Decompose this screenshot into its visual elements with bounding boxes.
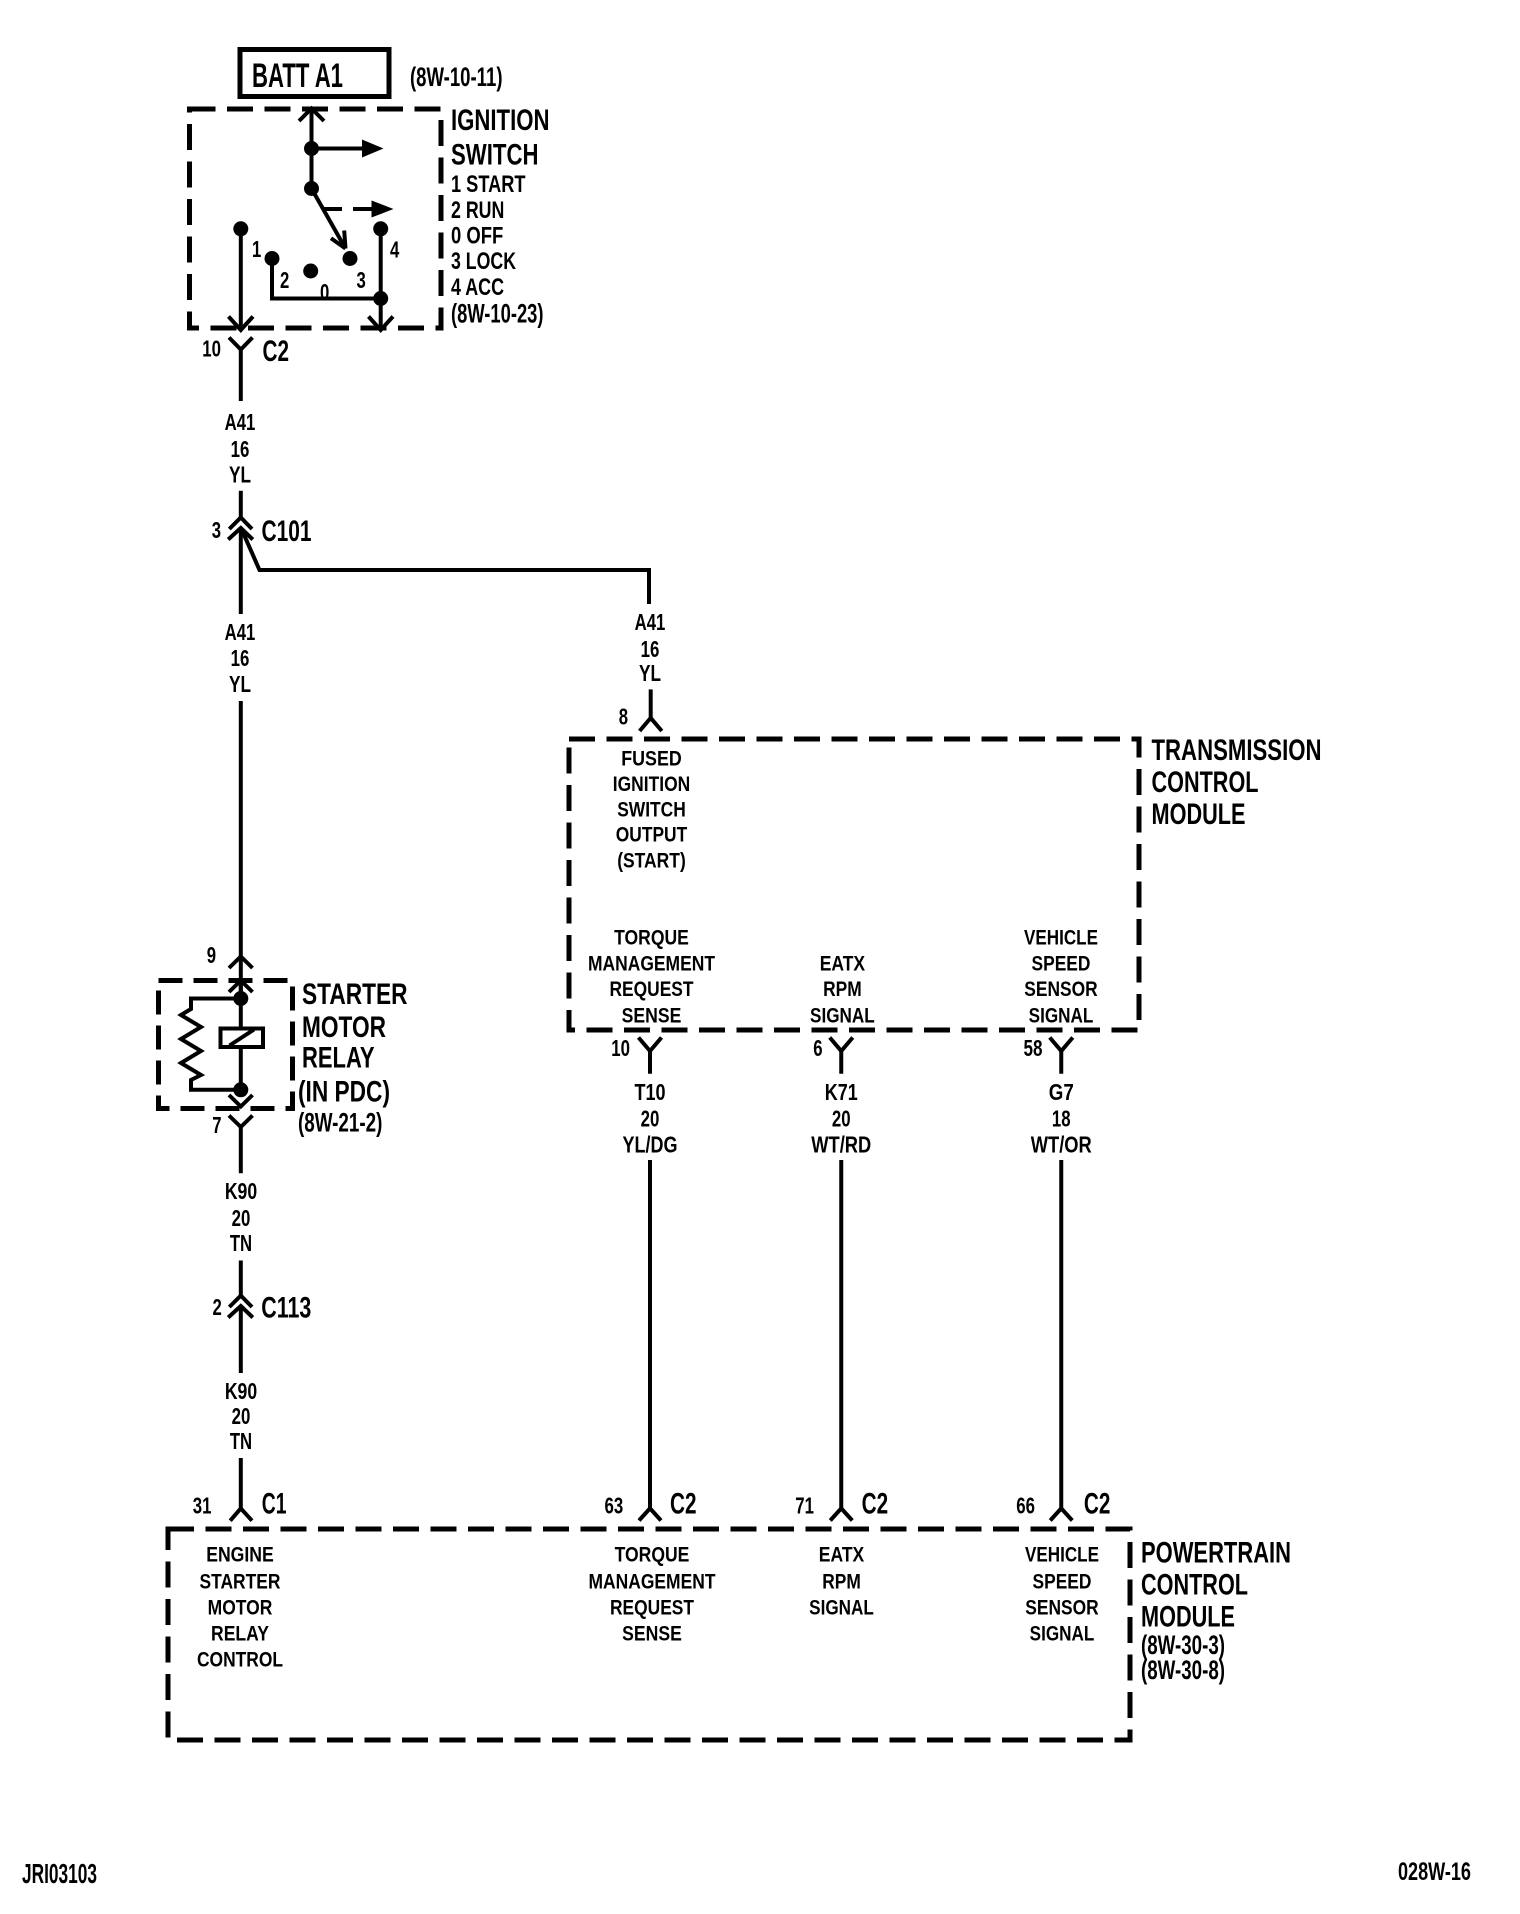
svg-text:CONTROL: CONTROL	[1141, 1569, 1248, 1602]
powertrain control module dashed box	[168, 1529, 1130, 1740]
relay top node dot	[233, 991, 248, 1006]
TCM title	[1152, 734, 1322, 831]
svg-text:YL: YL	[229, 671, 251, 697]
svg-text:SENSOR: SENSOR	[1025, 1596, 1099, 1620]
svg-text:3: 3	[212, 517, 221, 543]
contact 3 dot	[343, 251, 358, 266]
svg-text:31: 31	[193, 1493, 212, 1519]
svg-text:YL: YL	[229, 462, 251, 488]
branch wire from C101 to TCM column	[243, 532, 649, 604]
svg-text:YL/DG: YL/DG	[623, 1131, 678, 1157]
svg-text:YL: YL	[639, 660, 661, 686]
svg-text:TN: TN	[230, 1428, 252, 1454]
switch wiper node dot	[304, 181, 319, 196]
svg-text:7: 7	[212, 1112, 221, 1138]
PCM pin 31 function label	[197, 1543, 283, 1672]
svg-text:RELAY: RELAY	[302, 1041, 375, 1074]
svg-text:A41: A41	[225, 619, 256, 645]
svg-text:A41: A41	[635, 609, 666, 635]
arrow into relay box	[229, 981, 253, 993]
svg-text:C2: C2	[862, 1488, 889, 1521]
svg-text:MOTOR: MOTOR	[208, 1596, 273, 1620]
svg-text:TRANSMISSION: TRANSMISSION	[1152, 734, 1322, 767]
svg-text:BATT A1: BATT A1	[252, 57, 343, 95]
arrow out of relay box	[229, 1095, 253, 1107]
contact 1 dot	[233, 221, 248, 236]
svg-text:2: 2	[213, 1294, 222, 1320]
svg-text:FUSED: FUSED	[621, 747, 682, 771]
TCM pin 8 function label	[613, 747, 690, 873]
PCM EATX RPM label	[809, 1543, 874, 1620]
wire label T10 20 YL/DG	[623, 1079, 678, 1157]
svg-text:SIGNAL: SIGNAL	[1029, 1004, 1094, 1028]
svg-text:SPEED: SPEED	[1032, 952, 1091, 976]
svg-text:C113: C113	[261, 1292, 311, 1325]
svg-text:C1: C1	[262, 1487, 287, 1520]
relay coil box with diagonal	[221, 1029, 264, 1048]
svg-text:SENSOR: SENSOR	[1024, 977, 1098, 1001]
svg-text:0: 0	[320, 279, 329, 305]
TCM pin 58 connector	[1050, 1038, 1073, 1074]
TCM pin 8 connector	[640, 689, 662, 731]
wire contact 4 to connector, down arrow at box edge	[369, 229, 394, 330]
svg-text:16: 16	[641, 636, 660, 662]
svg-text:9: 9	[207, 942, 216, 968]
wire T10 column down to PCM	[639, 1160, 661, 1521]
svg-text:T10: T10	[635, 1079, 666, 1105]
svg-text:SPEED: SPEED	[1033, 1570, 1092, 1594]
wiper blade to contact 3 with arrowhead	[312, 189, 346, 249]
contact 4 dot	[373, 221, 388, 236]
relay title labels	[298, 978, 408, 1138]
svg-text:MODULE: MODULE	[1141, 1601, 1235, 1634]
TCM pin 6 connector	[830, 1038, 853, 1074]
svg-text:3: 3	[357, 267, 366, 293]
contact 0 dot	[303, 264, 318, 279]
svg-text:SIGNAL: SIGNAL	[809, 1596, 874, 1620]
starter motor relay dashed box	[159, 981, 293, 1109]
svg-text:POWERTRAIN: POWERTRAIN	[1141, 1537, 1291, 1570]
svg-text:MANAGEMENT: MANAGEMENT	[588, 952, 715, 976]
svg-text:4: 4	[390, 237, 399, 263]
svg-text:SWITCH: SWITCH	[617, 797, 686, 821]
svg-text:6: 6	[813, 1035, 822, 1061]
svg-text:G7: G7	[1049, 1079, 1074, 1105]
connector C2 pin 10 (ignition switch output)	[229, 338, 253, 402]
TCM vehicle speed label	[1024, 926, 1098, 1028]
svg-text:IGNITION: IGNITION	[451, 104, 550, 137]
svg-text:SWITCH: SWITCH	[451, 138, 539, 171]
wire label A41 16 YL (upper)	[225, 409, 256, 488]
switch common node dot (battery feed)	[304, 141, 319, 156]
svg-text:20: 20	[641, 1106, 660, 1132]
svg-text:1 START: 1 START	[451, 171, 526, 198]
wire from BATT A1 into switch, arrow up	[299, 109, 324, 189]
svg-text:CONTROL: CONTROL	[197, 1648, 283, 1672]
svg-text:71: 71	[795, 1493, 814, 1519]
TCM torque management label	[588, 926, 715, 1028]
wire contact 1 to connector, down arrow at box edge	[229, 229, 254, 330]
TCM EATX RPM label	[810, 952, 875, 1028]
wire label A41 16 YL (right branch)	[635, 609, 666, 686]
svg-text:18: 18	[1052, 1106, 1071, 1132]
relay bottom node dot	[233, 1082, 248, 1097]
svg-text:63: 63	[605, 1493, 624, 1519]
svg-text:(START): (START)	[617, 849, 686, 873]
svg-text:RPM: RPM	[822, 1570, 861, 1594]
svg-text:SIGNAL: SIGNAL	[1030, 1622, 1095, 1646]
svg-text:TORQUE: TORQUE	[614, 926, 689, 950]
svg-text:STARTER: STARTER	[302, 978, 408, 1011]
relay internal wire	[239, 981, 243, 1090]
dashed travel arrow (RUN direction)	[324, 201, 394, 218]
svg-text:(8W-10-11): (8W-10-11)	[410, 62, 503, 92]
junction dot contacts 2/4	[373, 291, 388, 306]
svg-text:K90: K90	[225, 1178, 257, 1204]
svg-text:C2: C2	[263, 335, 290, 368]
svg-text:ENGINE: ENGINE	[206, 1543, 274, 1567]
svg-text:20: 20	[232, 1403, 251, 1429]
svg-text:STARTER: STARTER	[200, 1570, 281, 1594]
wire label K90 20 TN (upper)	[225, 1178, 257, 1256]
svg-text:K71: K71	[825, 1079, 858, 1105]
transmission control module dashed box	[569, 739, 1139, 1030]
svg-text:EATX: EATX	[820, 952, 866, 976]
connector pin 9 at starter relay	[229, 957, 253, 969]
contact 2 dot	[265, 251, 280, 266]
svg-text:SENSE: SENSE	[622, 1622, 682, 1646]
wire label A41 16 YL (lower left)	[225, 619, 256, 697]
connector C113 pin 2 (double chevron)	[228, 1296, 253, 1318]
connector pin 7 below relay	[229, 1116, 253, 1174]
svg-text:10: 10	[202, 336, 221, 362]
svg-text:2: 2	[280, 267, 289, 293]
svg-text:16: 16	[231, 645, 250, 671]
wire below C101	[239, 528, 243, 614]
ignition switch title labels	[451, 104, 550, 328]
wire label G7 18 WT/OR	[1031, 1079, 1092, 1157]
svg-text:VEHICLE: VEHICLE	[1025, 1543, 1099, 1567]
svg-text:MODULE: MODULE	[1152, 798, 1246, 831]
wire to PCM pin 31	[230, 1458, 252, 1521]
svg-text:66: 66	[1016, 1493, 1035, 1519]
svg-text:(8W-21-2): (8W-21-2)	[298, 1108, 382, 1138]
svg-text:A41: A41	[225, 409, 256, 435]
svg-text:20: 20	[832, 1106, 851, 1132]
wire down to starter relay	[239, 701, 243, 999]
svg-text:0 OFF: 0 OFF	[451, 222, 503, 249]
svg-text:RELAY: RELAY	[211, 1622, 269, 1646]
wire label K90 20 TN (lower)	[225, 1378, 257, 1454]
svg-text:REQUEST: REQUEST	[610, 977, 694, 1001]
svg-text:TN: TN	[230, 1230, 252, 1256]
wire G7 column down to PCM	[1050, 1160, 1072, 1521]
svg-text:SIGNAL: SIGNAL	[810, 1004, 875, 1028]
svg-text:10: 10	[611, 1035, 630, 1061]
PCM vehicle speed label	[1025, 1543, 1099, 1646]
battery feed box BATT A1	[240, 50, 389, 97]
svg-text:(8W-10-23): (8W-10-23)	[451, 298, 544, 328]
PCM title	[1141, 1537, 1291, 1685]
svg-text:JRI03103: JRI03103	[22, 1858, 97, 1889]
svg-text:REQUEST: REQUEST	[610, 1596, 694, 1620]
wire K71 column down to PCM	[830, 1160, 852, 1521]
svg-text:C2: C2	[1084, 1488, 1111, 1521]
svg-text:SENSE: SENSE	[622, 1004, 682, 1028]
svg-text:3 LOCK: 3 LOCK	[451, 248, 516, 275]
wire A41 to C101	[239, 491, 243, 518]
svg-text:16: 16	[231, 436, 250, 462]
svg-text:028W-16: 028W-16	[1398, 1858, 1471, 1886]
svg-text:20: 20	[232, 1205, 251, 1231]
solid arrow to START contact	[312, 140, 384, 158]
svg-text:C2: C2	[670, 1488, 697, 1521]
wire contact 2 to junction	[272, 259, 381, 299]
connector C101 pin 3 (double chevron)	[228, 518, 253, 540]
svg-text:1: 1	[252, 236, 261, 262]
svg-text:TORQUE: TORQUE	[615, 1543, 690, 1567]
wire to C113	[239, 1261, 243, 1296]
svg-text:8: 8	[619, 704, 628, 730]
svg-text:58: 58	[1024, 1035, 1043, 1061]
svg-text:(8W-30-8): (8W-30-8)	[1141, 1655, 1225, 1685]
svg-text:4 ACC: 4 ACC	[451, 274, 504, 301]
svg-text:RPM: RPM	[823, 977, 862, 1001]
TCM pin 10 connector	[639, 1038, 662, 1074]
svg-text:OUTPUT: OUTPUT	[616, 823, 687, 847]
svg-text:2 RUN: 2 RUN	[451, 197, 504, 224]
svg-text:(IN PDC): (IN PDC)	[298, 1075, 390, 1108]
svg-text:VEHICLE: VEHICLE	[1024, 926, 1098, 950]
ignition switch S1 dashed box	[190, 109, 442, 328]
svg-text:WT/OR: WT/OR	[1031, 1131, 1092, 1157]
svg-text:C101: C101	[262, 515, 312, 548]
wire label K71 20 WT/RD	[811, 1079, 871, 1157]
svg-text:CONTROL: CONTROL	[1152, 766, 1259, 799]
svg-text:MOTOR: MOTOR	[302, 1011, 386, 1044]
PCM torque management label	[589, 1543, 716, 1646]
svg-text:EATX: EATX	[819, 1543, 865, 1567]
svg-text:K90: K90	[225, 1378, 257, 1404]
svg-text:MANAGEMENT: MANAGEMENT	[589, 1570, 716, 1594]
wire below C113	[239, 1306, 243, 1373]
svg-text:IGNITION: IGNITION	[613, 772, 690, 796]
relay coil resistor (zigzag)	[181, 999, 241, 1090]
svg-text:WT/RD: WT/RD	[811, 1131, 871, 1157]
